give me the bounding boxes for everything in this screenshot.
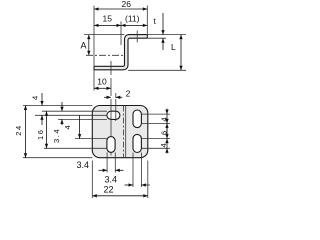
right ext line y148.3 — [141, 147, 170, 149]
left extension line x94 — [93, 6, 95, 67]
bottom ext line plate left x93 — [91, 161, 93, 199]
bracket right end edge — [146, 35, 148, 39]
bottom-left slot (vertical) — [107, 137, 115, 153]
ext line bottom surface y38.2 right — [147, 37, 166, 39]
dim (11) line — [121, 24, 134, 26]
svg-text:10: 10 — [97, 77, 107, 87]
bottom ext line right slot left x133 — [132, 153, 134, 188]
slot center line x111 lower — [110, 153, 112, 156]
bottom ext line left slot right x115.3 — [114, 152, 116, 172]
dim 22 line — [92, 195, 120, 197]
right ext line y123.4 — [141, 122, 170, 124]
bend dash-dot line x123.5 — [123, 106, 125, 158]
top-right slot (vertical) — [133, 110, 141, 128]
dim 4 right bottom lower arrow — [166, 148, 168, 153]
bottom-right slot (vertical) — [133, 134, 141, 152]
dim 3.4 left lower arrow — [61, 119, 63, 125]
dim 4 right bottom upper arrow — [166, 139, 168, 149]
dim 4 right top upper arrow — [166, 109, 168, 115]
ext line top surface y34.6 right — [147, 34, 186, 36]
svg-text:26: 26 — [122, 0, 132, 9]
dim 4 right top lower arrow — [166, 114, 168, 123]
svg-text:15: 15 — [103, 14, 113, 24]
bend line x125.7 — [125, 106, 127, 158]
svg-text:(11): (11) — [125, 14, 140, 24]
dim 26 line — [94, 8, 121, 10]
dim 3.4 bottom-left left arrow — [99, 169, 108, 171]
dim 3.4 bottom-right right arrow — [141, 184, 149, 186]
dim 24 line — [25, 106, 27, 132]
bracket left end edge — [93, 66, 95, 70]
svg-text:4: 4 — [63, 125, 72, 129]
dim 6 right upper arrow — [166, 123, 168, 138]
ext line top surface y34.6 left — [84, 34, 125, 36]
svg-text:L: L — [171, 42, 176, 52]
left ext line slot center y115.3 — [35, 114, 107, 116]
optical axis dash-dot line — [86, 54, 125, 56]
hole center line flange x111 — [110, 61, 112, 75]
dim 4 left lower arrow — [41, 115, 43, 125]
ext line x115.8 upper — [115, 93, 117, 98]
top slot (horizontal) — [107, 111, 120, 119]
right extension line x147.3 — [146, 6, 148, 35]
dim 3.4 left upper arrow — [61, 102, 63, 111]
svg-text:6: 6 — [160, 131, 169, 135]
dim 4 left upper arrow — [41, 93, 43, 106]
svg-text:A: A — [81, 41, 87, 51]
bottom ext line right slot right x141.4 — [140, 153, 142, 188]
dim 6 right lower arrow — [166, 123, 168, 138]
svg-text:3.4: 3.4 — [52, 128, 61, 143]
dim 16 line — [46, 111, 48, 130]
svg-text:3.4: 3.4 — [77, 160, 90, 170]
dim 15 line — [94, 24, 108, 26]
right ext line y114.1 — [141, 113, 170, 115]
svg-text:22: 22 — [104, 185, 114, 195]
dim 3.4 bottom-right left arrow — [125, 184, 134, 186]
left ext line slot top y111.2 — [42, 110, 107, 112]
bottom ext line left slot left x107.1 — [106, 152, 108, 172]
dim 3.4 bottom-left right arrow — [115, 169, 123, 171]
bottom ext line plate right x148 — [147, 161, 149, 199]
svg-text:24: 24 — [14, 124, 23, 136]
left extension below flange x94 — [93, 70, 95, 91]
right ext line y138.6 — [141, 138, 170, 140]
svg-text:4: 4 — [31, 96, 40, 100]
svg-text:16: 16 — [36, 128, 45, 140]
plate body — [92, 106, 148, 158]
ext for dim10 x111 — [110, 78, 112, 96]
svg-text:4: 4 — [160, 117, 169, 121]
left ext line bottom slot top arc y138.6 — [75, 138, 107, 140]
dim t lower arrow — [162, 38, 164, 50]
svg-text:t: t — [154, 16, 157, 26]
hole center line top plate x137.2 — [136, 31, 138, 43]
bracket profile outer line — [94, 35, 147, 67]
dim 10 line — [94, 87, 103, 89]
dim 2 line right arrow — [116, 96, 123, 98]
ext line x115.8 for dim 2 — [115, 99, 117, 121]
dim A line — [88, 35, 90, 45]
dim L line — [180, 35, 182, 53]
middle extension line x121 — [120, 22, 122, 46]
dim 4 mid line — [79, 115, 81, 138]
left ext line plate top y105.5 — [23, 105, 92, 107]
svg-text:3.4: 3.4 — [105, 174, 118, 184]
svg-text:2: 2 — [126, 89, 131, 99]
svg-text:4: 4 — [159, 143, 168, 147]
left ext line slot bottom y119.4 — [58, 118, 107, 120]
left ext line bottom slot arc y148.3 — [44, 147, 107, 149]
left ext line plate bottom y157.7 — [23, 157, 92, 159]
ext line flange bottom y70.3 right — [128, 69, 186, 71]
dim t upper arrow — [162, 13, 164, 35]
bracket profile inner line — [94, 38, 147, 70]
bracket cross-section fill — [94, 35, 147, 70]
dim 2 line left arrow — [104, 96, 111, 98]
slot center line x111 — [110, 99, 112, 136]
